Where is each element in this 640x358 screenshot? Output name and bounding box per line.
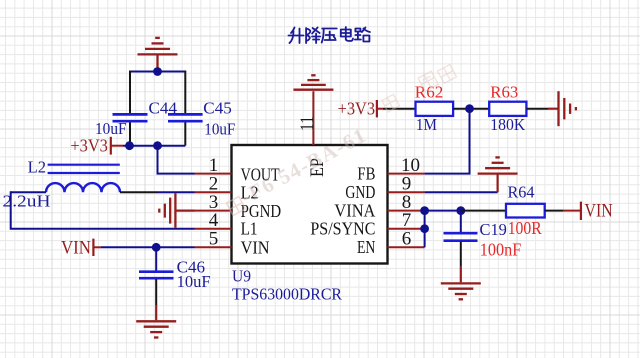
ground GND5 below C19: [441, 283, 481, 299]
svg-text:GND: GND: [345, 182, 375, 202]
inductor L2 core lines: [48, 165, 120, 173]
pin 8 stub: [388, 210, 425, 212]
title 升降压电路 (drawn strokes): [289, 27, 370, 43]
wire C46 bottom stub: [155, 279, 157, 305]
wire C44 top stub: [129, 71, 131, 114]
wire C19 bottom stub: [460, 242, 462, 267]
wire C45 bottom stub: [184, 123, 186, 146]
wire C19 top stub: [460, 211, 462, 232]
capacitor C19: [444, 233, 478, 241]
svg-text:1M: 1M: [416, 115, 437, 134]
wire C44 bottom stub: [129, 123, 131, 146]
svg-text:VIN: VIN: [61, 239, 91, 259]
svg-text:VIN: VIN: [585, 200, 613, 221]
svg-text:100R: 100R: [508, 218, 542, 238]
svg-text:L2: L2: [28, 157, 46, 176]
capacitor C44: [113, 114, 148, 121]
svg-text:11: 11: [298, 116, 318, 131]
svg-text:C45: C45: [203, 98, 232, 117]
wire C19 ground stem: [460, 267, 462, 283]
power port +3V3 right: [338, 99, 383, 119]
pin 7 stub: [388, 228, 425, 230]
wire VIN port lead: [563, 210, 581, 212]
wire top rail C44-C45: [130, 71, 185, 73]
svg-text:VINA: VINA: [334, 200, 375, 220]
svg-text:10uF: 10uF: [204, 120, 235, 139]
svg-text:TPS63000DRCR: TPS63000DRCR: [232, 284, 342, 303]
wire pins 7-6 vertical: [424, 211, 426, 248]
watermark diagonal text line A: [237, 123, 371, 209]
node junction C19: [456, 206, 465, 215]
wire R64 to VIN port: [545, 210, 564, 212]
char 压: [322, 29, 337, 43]
svg-text:EN: EN: [357, 237, 376, 257]
power port +3V3 left: [70, 136, 123, 156]
svg-text:+3V3: +3V3: [70, 136, 108, 156]
svg-text:5: 5: [209, 229, 219, 250]
svg-text:6: 6: [402, 229, 412, 250]
watermark diagonal glyphs line B: [382, 65, 457, 112]
wire left loop down to L1 pin4: [11, 191, 195, 228]
svg-text:10uF: 10uF: [177, 272, 211, 291]
svg-text:R64: R64: [508, 182, 535, 201]
pin 3 stub PGND wire: [195, 210, 232, 212]
power port VIN right: [581, 200, 613, 221]
char 路: [355, 28, 370, 42]
wire ground stem pin9: [497, 174, 499, 193]
node junction pin8: [420, 206, 429, 215]
wire inductor right lead: [120, 191, 158, 193]
power port VIN left: [61, 239, 101, 259]
pin 2 stub: [195, 191, 232, 193]
wire +3V3 to R62: [383, 108, 416, 110]
inductor L2 arcs: [46, 183, 120, 192]
node junction FB divider: [465, 104, 474, 113]
svg-text:R63: R63: [490, 82, 518, 101]
ground GND2 above EP: [293, 75, 333, 89]
wire GND pin9: [425, 191, 498, 193]
wire inductor left lead: [11, 191, 46, 193]
wire R62 to node: [453, 108, 489, 110]
wire VIN to pin5: [101, 246, 195, 248]
ground GND6 right of R63: [559, 91, 576, 126]
node junction VIN C46: [152, 243, 161, 252]
pin 4 stub: [195, 228, 232, 230]
wire R63 to ground: [526, 108, 548, 110]
pin 10 stub: [388, 173, 425, 175]
ground GND3 above pin9 wire: [478, 157, 518, 173]
pin 5 stub: [195, 246, 232, 248]
wire node to R64: [461, 210, 506, 212]
pin 9 stub: [388, 191, 425, 193]
pin 6 stub: [388, 246, 425, 248]
wire C46 ground stem: [155, 305, 157, 320]
wire C45 top stub: [184, 71, 186, 114]
ground GND1 above C44/C45 junction: [138, 38, 178, 72]
wire VINA pin8 to node: [425, 210, 461, 212]
svg-text:+3V3: +3V3: [338, 99, 376, 119]
svg-text:180K: 180K: [490, 115, 525, 134]
ground GND4 below C46: [136, 321, 176, 337]
wire +3V3 rail: [123, 145, 185, 147]
svg-text:100nF: 100nF: [480, 240, 522, 260]
resistor R63: [489, 102, 526, 116]
svg-text:VIN: VIN: [241, 237, 270, 257]
pin 1 stub: [195, 173, 232, 175]
resistor R64: [506, 204, 545, 218]
svg-text:L1: L1: [241, 219, 258, 239]
resistor R62: [416, 102, 454, 116]
node junction C44 rail: [125, 141, 134, 150]
node junction top rail ground: [153, 67, 162, 76]
svg-text:PS/SYNC: PS/SYNC: [310, 218, 375, 238]
wire drop to VOUT pin1: [158, 146, 195, 174]
pin 11 EP stub: [312, 91, 314, 145]
wire C46 top stub: [155, 247, 157, 270]
capacitor C46: [139, 272, 174, 279]
node junction pin7: [420, 224, 429, 233]
wire L2 to pin2: [158, 191, 195, 193]
ground GND7 at PGND: [159, 193, 194, 228]
IC U9 body: [232, 145, 388, 264]
char 升: [289, 28, 304, 44]
char 电: [341, 27, 353, 41]
char 降: [306, 28, 320, 44]
svg-text:C19: C19: [480, 220, 507, 239]
wire ground stem right: [548, 108, 559, 110]
svg-text:U9: U9: [232, 267, 251, 286]
svg-text:FB: FB: [357, 163, 375, 183]
watermark leading CJK glyph: [227, 197, 246, 216]
wire FB net vertical: [425, 109, 470, 174]
svg-text:10uF: 10uF: [95, 119, 127, 138]
node junction rail to pin1: [153, 141, 162, 150]
capacitor C45: [168, 114, 203, 121]
